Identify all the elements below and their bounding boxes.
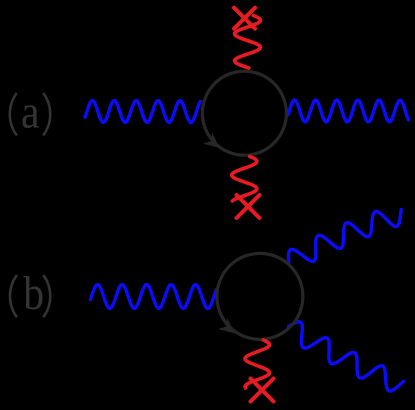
photon line upper right (b) xyxy=(289,210,402,263)
fermion loop (b) xyxy=(217,253,303,339)
cross bottom (a) xyxy=(237,195,260,218)
label (b) xyxy=(10,275,17,317)
photon line lower right (b) xyxy=(289,322,404,391)
fermion flow arrow (b) xyxy=(218,318,235,334)
cross bottom (b) xyxy=(251,379,274,402)
external field line bottom (b) xyxy=(245,340,270,388)
photon line left (a) xyxy=(85,101,201,123)
photon line left (b) xyxy=(91,285,217,309)
svg-text:b: b xyxy=(23,266,44,319)
fermion loop (a) xyxy=(202,71,286,155)
photon line right (a) xyxy=(288,100,408,122)
svg-text:a: a xyxy=(21,85,40,138)
fermion flow arrow (a) xyxy=(203,133,220,149)
external field line bottom (a) xyxy=(232,157,257,202)
label (a) xyxy=(10,93,17,136)
external field line top (a) xyxy=(235,16,261,69)
cross top (a) xyxy=(234,8,255,29)
